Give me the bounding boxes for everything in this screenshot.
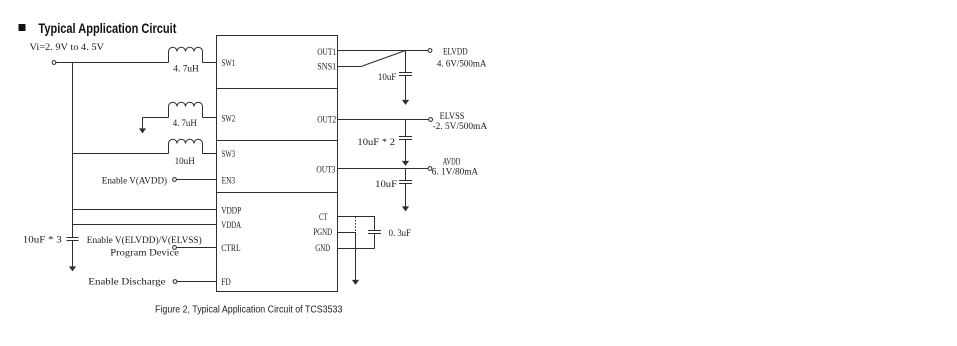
dotted wire CT to PGND (355, 217, 357, 233)
svg-text:10uF: 10uF (378, 72, 397, 83)
svg-text:CTRL: CTRL (221, 243, 241, 254)
IC U1 body (217, 36, 338, 292)
svg-text:FD: FD (221, 277, 231, 288)
capacitor C2 10uF*2 (399, 120, 412, 162)
svg-text:CT: CT (319, 212, 328, 223)
svg-text:SW2: SW2 (222, 113, 236, 124)
svg-text:Typical Application Circuit: Typical Application Circuit (38, 21, 176, 36)
svg-text:EN3: EN3 (222, 176, 236, 187)
svg-text:GND: GND (315, 243, 330, 254)
wire OUT3 to AVDD terminal (338, 168, 429, 170)
ground arrow below C5 (69, 266, 76, 271)
capacitor C4 0.3uF (368, 231, 381, 249)
capacitor C3 10uF (399, 169, 412, 207)
wire input to L1 (56, 62, 169, 64)
svg-text:Program Device: Program Device (110, 248, 179, 259)
wire rail to L3 (73, 153, 169, 155)
svg-text:OUT3: OUT3 (316, 164, 335, 175)
ground arrow below C1 (402, 100, 409, 105)
wire L2 to SW2 pin (203, 117, 217, 119)
svg-text:10uF * 2: 10uF * 2 (357, 137, 395, 148)
svg-text:4. 7uH: 4. 7uH (173, 118, 197, 129)
svg-text:VDDA: VDDA (221, 220, 241, 231)
svg-text:SW3: SW3 (222, 149, 236, 160)
svg-text:4. 7uH: 4. 7uH (173, 63, 198, 74)
svg-text:-2. 5V/500mA: -2. 5V/500mA (433, 121, 488, 132)
terminal circle ELVDD (428, 49, 432, 53)
terminal circle CTRL (173, 246, 177, 250)
wire CT pin (338, 217, 375, 231)
wire OUT2 to ELVSS terminal (338, 119, 429, 121)
section bullet (19, 24, 26, 31)
svg-text:0. 3uF: 0. 3uF (389, 228, 412, 239)
IC divider 2 (217, 140, 338, 142)
terminal circle EN3 (173, 178, 177, 182)
svg-text:Enable V(AVDD): Enable V(AVDD) (102, 176, 167, 187)
svg-text:4. 6V/500mA: 4. 6V/500mA (437, 59, 487, 70)
svg-text:6. 1V/80mA: 6. 1V/80mA (432, 166, 478, 177)
input terminal circle (52, 61, 56, 65)
wire FD (177, 281, 217, 283)
IC divider 1 (217, 88, 338, 90)
svg-text:Enable V(ELVDD)/V(ELVSS): Enable V(ELVDD)/V(ELVSS) (87, 235, 202, 246)
svg-text:10uH: 10uH (175, 156, 195, 167)
ground arrow SW2 (139, 128, 146, 133)
wire EN3 (176, 179, 216, 181)
svg-text:Figure 2, Typical Application: Figure 2, Typical Application Circuit of… (155, 304, 343, 315)
wire SNS1 stub (338, 66, 362, 68)
wire L1 to SW1 pin (203, 62, 217, 64)
svg-text:OUT1: OUT1 (317, 47, 336, 58)
svg-text:10uF * 3: 10uF * 3 (23, 235, 62, 246)
wire VDDA (73, 224, 217, 226)
svg-text:SW1: SW1 (222, 58, 236, 69)
terminal circle FD (173, 280, 177, 284)
inductor L2 (169, 102, 203, 117)
input rail wire vertical (72, 63, 74, 238)
svg-text:OUT2: OUT2 (317, 115, 336, 126)
ground arrow below C2 (402, 161, 409, 166)
svg-text:Vi=2. 9V to 4. 5V: Vi=2. 9V to 4. 5V (30, 42, 105, 53)
ground arrow below PGND (352, 280, 359, 285)
wire CTRL (176, 247, 216, 249)
wire L3 to SW3 pin (203, 153, 217, 155)
svg-text:10uF: 10uF (375, 179, 397, 190)
svg-text:VDDP: VDDP (221, 206, 241, 217)
terminal circle AVDD (428, 167, 432, 171)
terminal circle ELVSS (429, 118, 433, 122)
capacitor C1 10uF (399, 51, 412, 101)
svg-text:ELVDD: ELVDD (443, 47, 468, 58)
inductor L1 (169, 47, 203, 62)
svg-text:PGND: PGND (313, 227, 332, 238)
wire VDDP (73, 209, 217, 211)
IC divider 3 (217, 192, 338, 194)
wire SW2 arrow stub (142, 118, 144, 129)
wire arrow stub to L2 (143, 117, 169, 119)
wire OUT1 to ELVDD terminal (338, 50, 429, 52)
ground arrow below C3 (402, 206, 409, 211)
wire PGND pin (338, 233, 356, 281)
wire SNS1 diagonal (361, 51, 406, 67)
svg-text:SNS1: SNS1 (317, 61, 336, 72)
wire GND pin (338, 248, 375, 250)
svg-text:Enable Discharge: Enable Discharge (88, 276, 166, 287)
inductor L3 (169, 139, 203, 153)
capacitor C5 10uF*3 (67, 238, 79, 267)
